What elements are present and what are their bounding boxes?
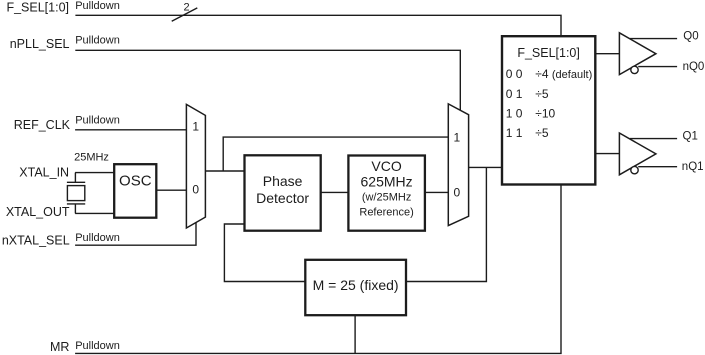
wire mux U1 output to Phase Detector (205, 170, 244, 172)
buffer B1 (619, 33, 656, 75)
wire PLL bypass from mux U1 output to mux U2 input 1 (223, 137, 448, 171)
svg-text:25MHz: 25MHz (74, 151, 109, 163)
svg-text:Pulldown: Pulldown (75, 340, 120, 352)
svg-text:Phase: Phase (263, 173, 303, 189)
divider M1 M = 25 (fixed) (305, 260, 406, 315)
wire feedback tap down to M divider output (406, 167, 486, 281)
svg-text:XTAL_OUT: XTAL_OUT (6, 205, 70, 219)
node Q0 label (683, 30, 698, 42)
svg-text:÷5: ÷5 (535, 126, 549, 140)
wire nQ1 output (638, 166, 677, 168)
svg-text:1: 1 (453, 130, 460, 144)
svg-text:÷5: ÷5 (535, 87, 549, 101)
svg-text:XTAL_IN: XTAL_IN (19, 165, 69, 179)
crystal X1 (67, 182, 85, 213)
svg-text:Pulldown: Pulldown (75, 0, 120, 12)
wire divider block to buffer B2 (595, 153, 619, 155)
svg-text:0: 0 (192, 183, 199, 197)
svg-text:625MHz: 625MHz (361, 174, 413, 190)
svg-text:1: 1 (192, 119, 199, 133)
svg-text:Reference): Reference) (359, 206, 413, 218)
inversion bubble B2 (631, 166, 638, 173)
svg-text:÷4 (default): ÷4 (default) (535, 67, 592, 81)
buffer B2 (619, 133, 656, 175)
svg-text:OSC: OSC (119, 173, 152, 190)
svg-text:nQ0: nQ0 (683, 61, 705, 73)
wire nPLL_SEL to mux U2 select (75, 50, 460, 110)
svg-text:F_SEL[1:0]: F_SEL[1:0] (517, 46, 580, 60)
node MR input label (50, 340, 69, 354)
pulldown label MR (75, 340, 120, 352)
wire REF_CLK to mux U1 input 1 (75, 129, 186, 131)
svg-text:Q1: Q1 (683, 131, 698, 143)
svg-text:Detector: Detector (256, 190, 309, 206)
node Q1 label (683, 131, 698, 143)
svg-text:REF_CLK: REF_CLK (14, 118, 71, 132)
svg-text:Pulldown: Pulldown (75, 35, 120, 47)
svg-text:Pulldown: Pulldown (75, 232, 120, 244)
divider block U5 F_SEL[1:0] (502, 36, 595, 184)
svg-text:0 1: 0 1 (506, 87, 523, 101)
wire Q1 output (630, 138, 677, 140)
svg-text:MR: MR (50, 340, 69, 354)
wire Phase Detector to VCO (321, 191, 349, 193)
svg-text:2: 2 (184, 2, 190, 14)
oscillator OSC (114, 164, 156, 218)
svg-text:nQ1: nQ1 (682, 161, 704, 173)
svg-text:0 0: 0 0 (506, 67, 523, 81)
wire XTAL_IN to OSC (75, 172, 114, 174)
wire divider block to buffer B1 (595, 53, 619, 55)
wire feedback from M divider to Phase Detector (224, 224, 305, 282)
label 25MHz (74, 151, 109, 163)
pulldown label REF_CLK (75, 115, 120, 127)
pulldown label nPLL_SEL (75, 35, 120, 47)
wire mux U2 output to divider block (469, 166, 502, 168)
svg-text:÷10: ÷10 (535, 106, 555, 120)
wire VCO to mux U2 input 0 (425, 191, 448, 193)
node nQ0 label (683, 61, 705, 73)
svg-text:(w/25MHz: (w/25MHz (362, 192, 412, 204)
wire F_SEL bus horizontal and drop into divider block (75, 15, 561, 36)
wire XTAL_IN stub to crystal (74, 173, 76, 183)
bus width label 2 (184, 2, 190, 14)
node REF_CLK input label (14, 118, 71, 132)
wire Q0 output (630, 38, 677, 40)
svg-text:1 0: 1 0 (506, 106, 523, 120)
node nQ1 label (682, 161, 704, 173)
wire nQ0 output (638, 66, 677, 68)
pulldown label F_SEL (75, 0, 120, 12)
svg-text:Q0: Q0 (683, 30, 698, 42)
node nXTAL_SEL input label (2, 233, 70, 247)
phase detector U3 (245, 155, 321, 230)
VCO U4 (348, 156, 425, 231)
svg-text:M = 25 (fixed): M = 25 (fixed) (313, 277, 399, 293)
svg-text:VCO: VCO (371, 158, 401, 174)
svg-text:nXTAL_SEL: nXTAL_SEL (2, 233, 70, 247)
wire OSC output to mux U1 input 0 (156, 189, 186, 191)
node XTAL_IN input label (19, 165, 69, 179)
mux U1 (186, 104, 205, 228)
mux U2 (448, 104, 468, 226)
node XTAL_OUT input label (6, 205, 70, 219)
wire nXTAL_SEL to mux U1 select (75, 222, 196, 245)
wire XTAL_OUT to OSC (75, 212, 114, 214)
wire MR to divider block bottom (75, 185, 561, 354)
bus width slash (172, 8, 198, 21)
svg-text:Pulldown: Pulldown (75, 115, 120, 127)
node F_SEL[1:0] input label (6, 0, 69, 14)
svg-text:nPLL_SEL: nPLL_SEL (10, 37, 70, 51)
svg-text:0: 0 (454, 186, 461, 200)
pulldown label nXTAL_SEL (75, 232, 120, 244)
node nPLL_SEL input label (10, 37, 70, 51)
inversion bubble B1 (631, 66, 638, 73)
wire M divider reset from MR line (354, 315, 356, 353)
svg-text:1 1: 1 1 (506, 126, 523, 140)
svg-text:F_SEL[1:0]: F_SEL[1:0] (6, 0, 69, 14)
